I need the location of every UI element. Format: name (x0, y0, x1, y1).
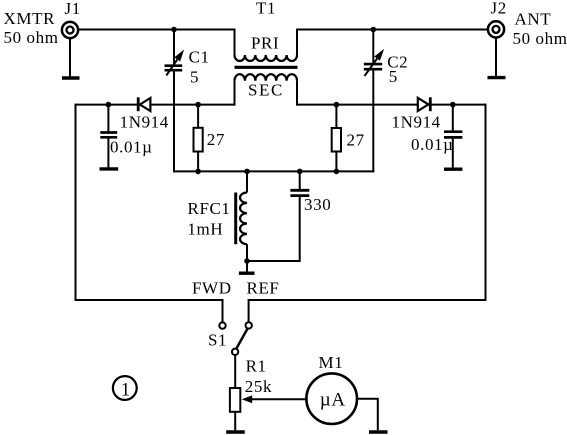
svg-text:50 ohm: 50 ohm (4, 28, 59, 47)
svg-text:M1: M1 (319, 353, 344, 372)
node right 0.01u junction (450, 102, 456, 108)
node right 27 top junction (334, 102, 340, 108)
capacitor right 0.01u (444, 104, 462, 168)
node right 27 bottom junction (334, 169, 340, 175)
ground (R1) (226, 430, 245, 433)
svg-text:5: 5 (389, 67, 398, 86)
svg-text:S1: S1 (208, 331, 227, 350)
svg-text:27: 27 (347, 131, 365, 150)
svg-text:REF: REF (247, 278, 280, 297)
switch S1 (219, 322, 252, 355)
node left 27 top junction (195, 102, 201, 108)
node left 27 bottom junction (195, 169, 201, 175)
T1 primary right lead (296, 29, 298, 56)
transformer T1 (235, 29, 298, 106)
diode right 1N914 (418, 97, 431, 111)
wire M1 to ground (357, 399, 378, 431)
wire top line left (J1 to T1 primary) (78, 29, 236, 31)
svg-text:J2: J2 (491, 0, 507, 18)
T1 secondary winding SEC (235, 74, 298, 81)
wire RFC1 bottom to ground (246, 261, 248, 272)
node 330 top junction (297, 169, 303, 175)
svg-text:1: 1 (121, 380, 131, 400)
svg-text:1N914: 1N914 (120, 112, 169, 131)
svg-text:27: 27 (207, 130, 225, 149)
wire box right edge (REF line) (249, 104, 486, 322)
svg-text:330: 330 (304, 195, 331, 214)
svg-text:XMTR: XMTR (4, 9, 56, 28)
svg-text:T1: T1 (256, 0, 276, 18)
T1 secondary right lead (296, 81, 298, 106)
svg-text:1mH: 1mH (187, 220, 223, 239)
resistor right 27 (332, 105, 341, 172)
node RFC1 top junction (244, 169, 250, 175)
svg-text:25k: 25k (245, 377, 272, 396)
potentiometer R1 (230, 388, 307, 430)
wire J1 to ground (69, 39, 71, 77)
capacitor 330 (246, 170, 309, 261)
capacitor C2 (variable) (364, 29, 384, 173)
svg-text:C1: C1 (189, 47, 210, 66)
ground (left 0.01u) (100, 167, 119, 170)
T1 core (235, 66, 298, 69)
svg-text:50 ohm: 50 ohm (513, 29, 567, 48)
svg-text:RFC1: RFC1 (188, 199, 231, 218)
T1 primary winding PRI (235, 55, 298, 61)
wire middle row left (75, 104, 236, 106)
wire second row (C1 bottom to C2 bottom) (173, 170, 374, 172)
node J1 top junction (171, 27, 177, 33)
node C2 top junction (371, 27, 377, 33)
ground (M1) (369, 430, 388, 434)
svg-text:5: 5 (190, 68, 199, 87)
meter M1 (306, 373, 357, 424)
ground (right 0.01u) (444, 167, 462, 170)
node left 0.01u junction (106, 102, 112, 108)
ground (RFC1/330) (239, 272, 255, 275)
svg-text:1N914: 1N914 (392, 113, 441, 132)
svg-text:µA: µA (320, 389, 346, 410)
connector J1 (62, 22, 78, 38)
svg-text:PRI: PRI (251, 34, 279, 53)
wire top line right (T1 primary to J2) (296, 29, 488, 31)
svg-text:ANT: ANT (515, 10, 552, 29)
svg-text:0.01µ: 0.01µ (110, 138, 153, 157)
node RFC1 bottom junction (244, 258, 250, 264)
wire switch pole to R1 (234, 355, 236, 388)
capacitor C1 (variable) (165, 29, 185, 173)
svg-text:SEC: SEC (248, 81, 284, 100)
capacitor left 0.01u (100, 104, 117, 168)
ground (J2) (488, 76, 506, 79)
connector J2 (488, 21, 504, 37)
wire middle row right (296, 104, 487, 106)
svg-text:R1: R1 (246, 356, 267, 375)
T1 secondary left lead (234, 81, 236, 106)
diode left 1N914 (138, 97, 150, 111)
inductor RFC1 (236, 170, 247, 262)
svg-text:FWD: FWD (192, 278, 232, 297)
svg-text:J1: J1 (65, 0, 81, 18)
wire box left edge (FWD line) (76, 104, 223, 323)
ground (J1) (62, 76, 80, 79)
figure number circle (113, 376, 137, 400)
wire J2 to ground (495, 38, 497, 76)
T1 primary left lead (234, 29, 236, 56)
svg-text:0.01µ: 0.01µ (411, 135, 454, 154)
resistor left 27 (194, 105, 203, 172)
